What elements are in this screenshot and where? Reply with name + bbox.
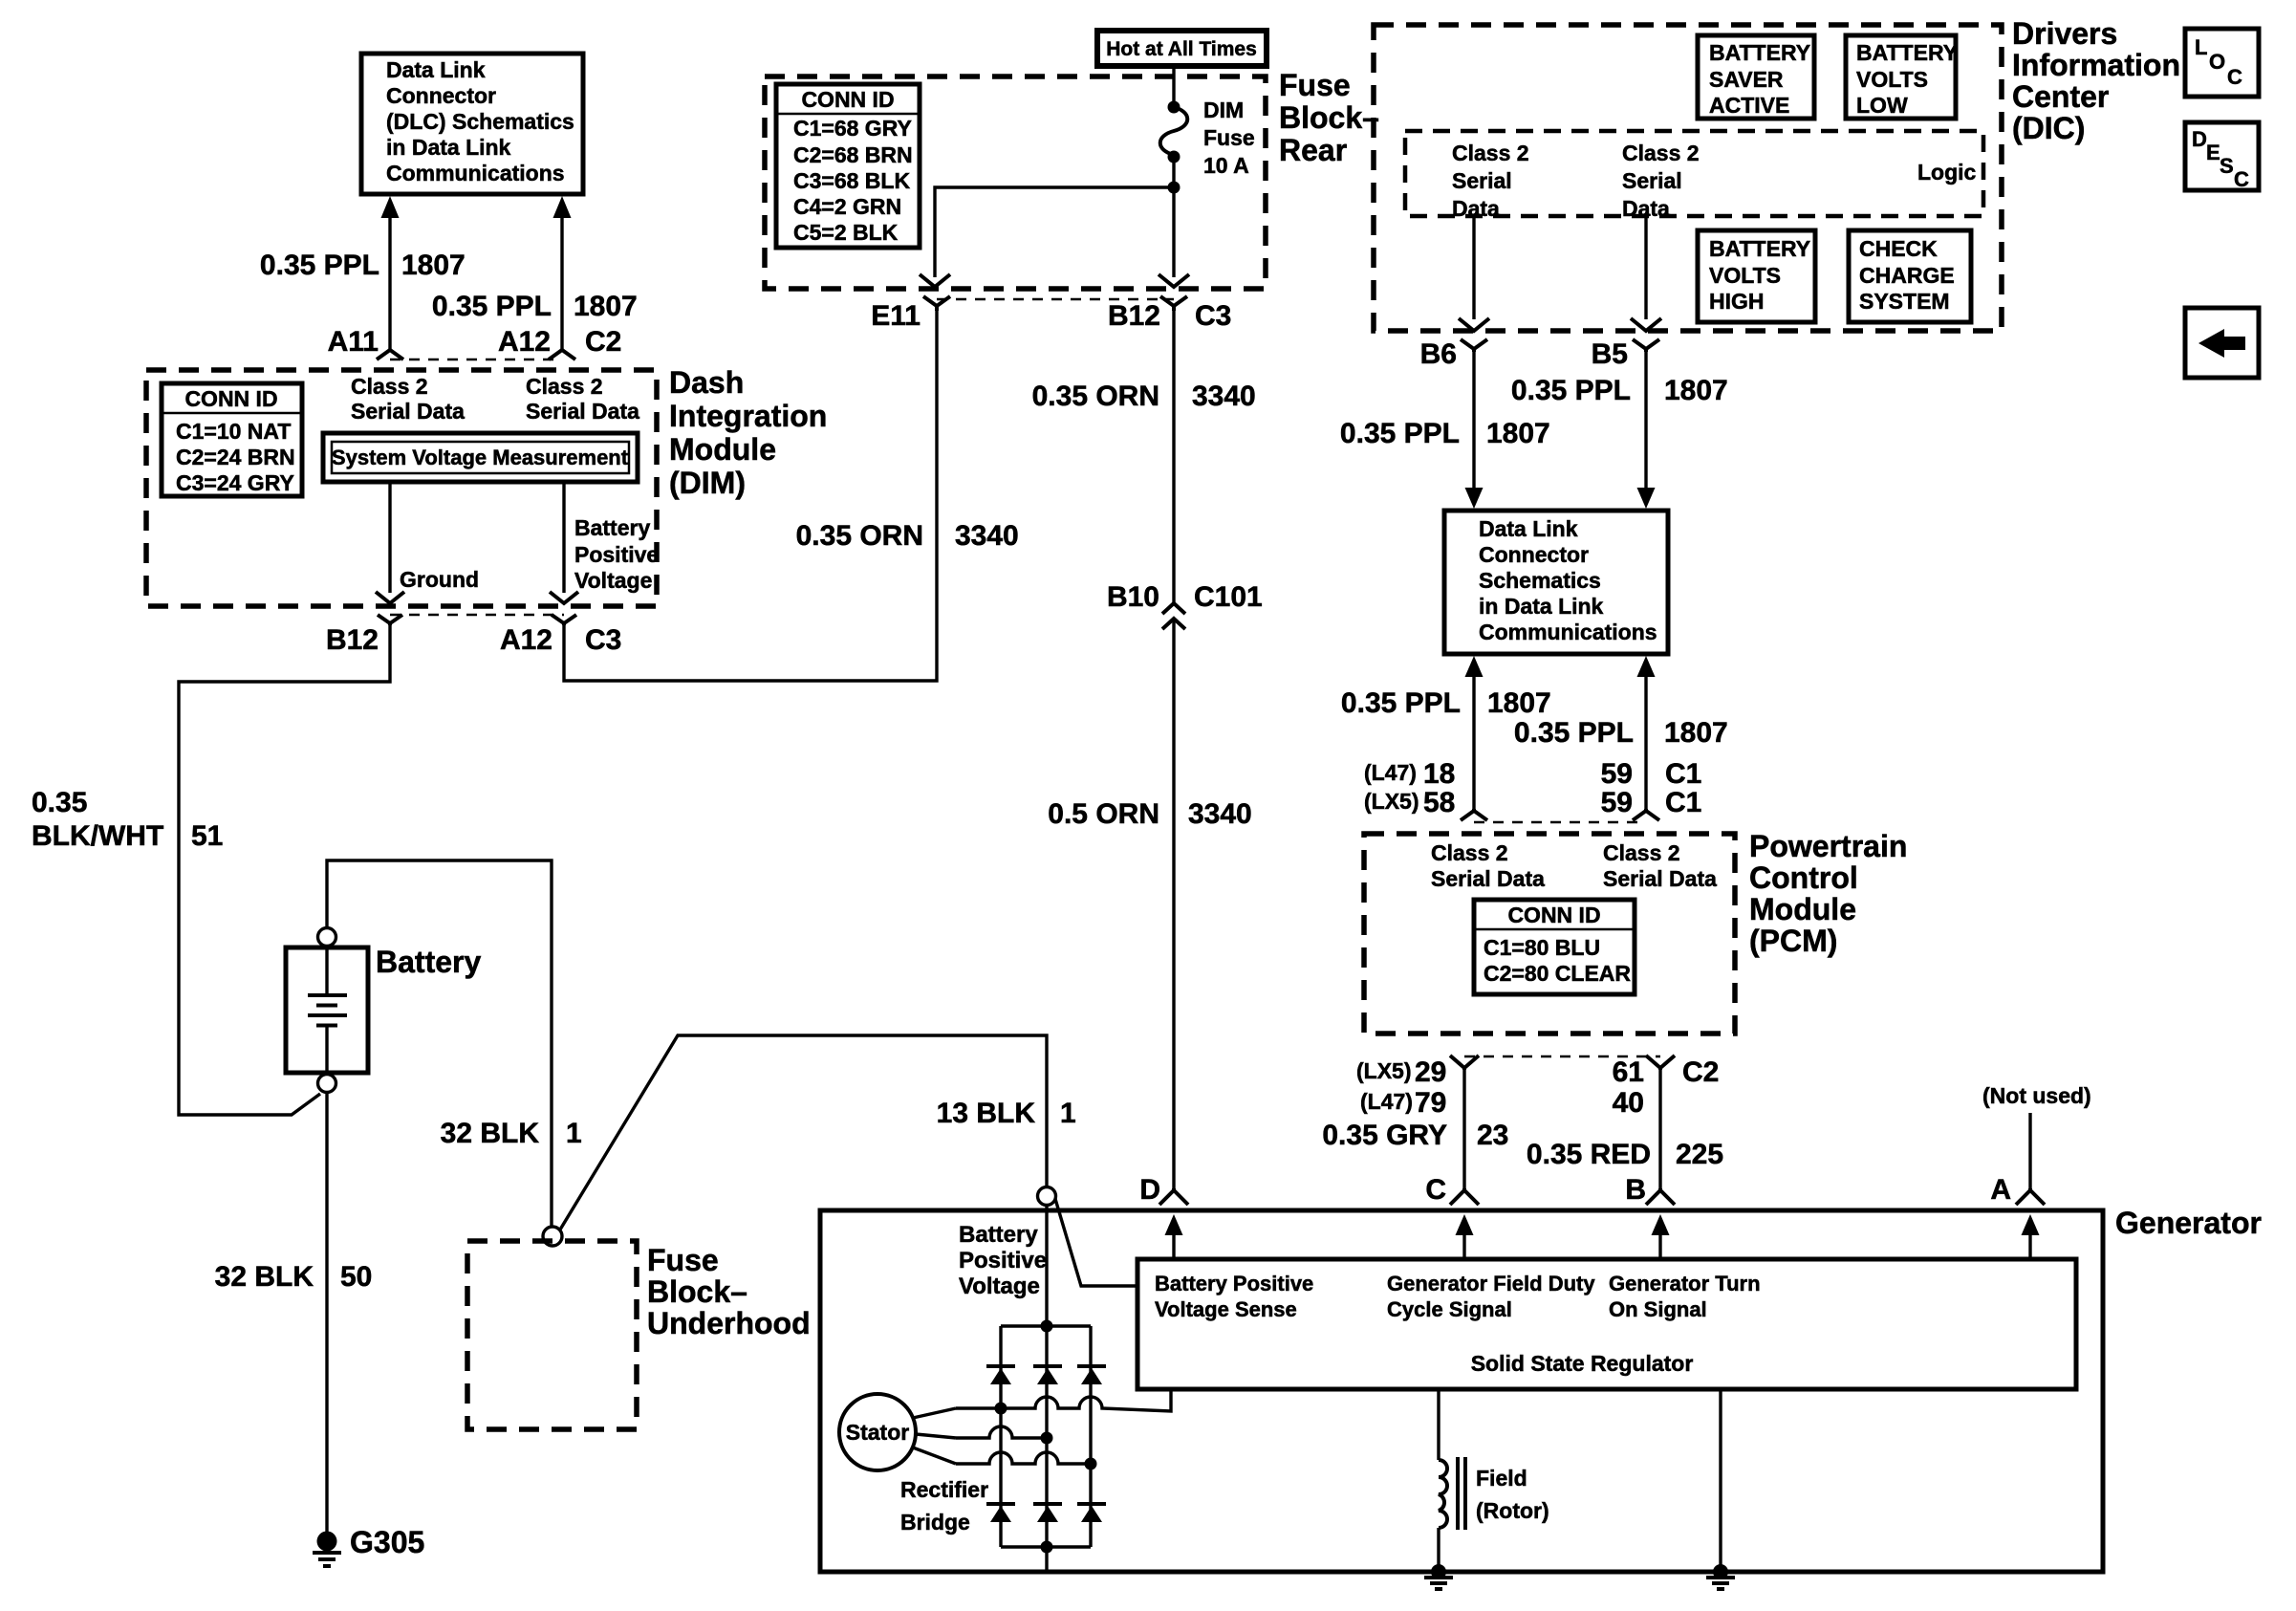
box Hot at All Times (1097, 31, 1267, 66)
svg-text:Rectifier: Rectifier (900, 1477, 988, 1502)
ground symbol (field) (1424, 1578, 1453, 1589)
svg-text:Serial Data: Serial Data (351, 399, 465, 424)
wire bridge center column to ground bus (1045, 1205, 1048, 1572)
svg-text:CONN ID: CONN ID (1507, 903, 1600, 927)
wire 0.35 ORN 3340 (DIM A12/C3 to fuse block E11) (564, 311, 937, 681)
connector fork A12 (prongs down) (549, 350, 575, 359)
svg-text:C2: C2 (585, 326, 621, 358)
svg-text:Rear: Rear (1279, 133, 1347, 167)
svg-text:13 BLK: 13 BLK (937, 1098, 1036, 1129)
svg-text:L: L (2195, 35, 2207, 59)
label 13 BLK 1 (937, 1098, 1076, 1129)
junction dot field ground (1431, 1564, 1446, 1579)
svg-text:Communications: Communications (1479, 620, 1657, 644)
svg-text:Bridge: Bridge (900, 1510, 970, 1535)
wire battery feed into DIM fuse (1172, 65, 1175, 105)
connector fork PCM top right (prongs down) (1633, 809, 1659, 820)
stator phase row 2 (hop over left column) (956, 1426, 1047, 1438)
connector fork B5 (prongs up) (1633, 339, 1659, 352)
battery negative terminal circle (318, 1075, 336, 1093)
svg-text:B6: B6 (1420, 338, 1457, 370)
svg-text:32 BLK: 32 BLK (215, 1261, 314, 1293)
label 0.35 BLK/WHT 51 (32, 787, 223, 852)
svg-text:Generator Field Duty: Generator Field Duty (1387, 1272, 1595, 1295)
svg-text:Underhood: Underhood (647, 1306, 811, 1340)
svg-text:HIGH: HIGH (1709, 289, 1765, 314)
component stator (circle) (839, 1394, 916, 1470)
module box Drivers Information Center (DIC) dashed outline (1374, 25, 2002, 331)
svg-text:Serial Data: Serial Data (1603, 866, 1717, 891)
label Class 2 Serial Data (DIC B6) (1452, 141, 1529, 221)
svg-text:0.35 PPL: 0.35 PPL (1340, 418, 1460, 449)
svg-text:C5=2 BLK: C5=2 BLK (793, 220, 899, 245)
ground G305 symbol (313, 1532, 341, 1567)
svg-text:Block–: Block– (1279, 100, 1379, 135)
indicator box CHECK CHARGE SYSTEM (1849, 230, 1971, 322)
svg-text:0.35: 0.35 (32, 787, 87, 818)
svg-text:Positive: Positive (959, 1248, 1047, 1274)
indicator box BATTERY SAVER ACTIVE (1698, 35, 1814, 119)
svg-text:Data: Data (1452, 196, 1500, 221)
svg-text:C3=68 BLK: C3=68 BLK (793, 168, 910, 193)
svg-text:DIM: DIM (1203, 98, 1244, 122)
connector fork PCM top left (prongs down) (1461, 809, 1487, 820)
wire 0.35 RED (PCM 61/40 to generator B) (1658, 1068, 1661, 1190)
label Generator Field Duty Cycle Signal (1387, 1272, 1595, 1321)
svg-text:1807: 1807 (401, 250, 466, 281)
svg-text:E: E (2206, 141, 2220, 164)
diode upper right (1077, 1366, 1106, 1384)
svg-text:Battery: Battery (959, 1222, 1038, 1248)
arrowhead up generator pin B (inside) (1652, 1214, 1670, 1259)
svg-text:C3=24 GRY: C3=24 GRY (176, 470, 294, 495)
svg-text:59: 59 (1601, 787, 1633, 818)
CONN ID table (PCM) (1474, 900, 1635, 994)
label 0.35 PPL 1807 (B6 wire) (1340, 418, 1550, 449)
svg-text:in Data Link: in Data Link (386, 135, 511, 160)
svg-text:50: 50 (340, 1261, 372, 1293)
svg-text:Serial Data: Serial Data (1431, 866, 1545, 891)
stator lead 1 (913, 1408, 956, 1418)
svg-text:1807: 1807 (1487, 687, 1551, 719)
label DIM Fuse 10 A (1203, 98, 1255, 178)
box System Voltage Measurement (inside DIM) (323, 433, 638, 482)
arrowhead open V at DIM bottom (ground wire) (376, 592, 404, 603)
svg-text:Center: Center (2012, 79, 2109, 114)
svg-text:CHECK: CHECK (1859, 236, 1938, 261)
svg-text:C101: C101 (1194, 581, 1263, 613)
wire generator pin A (not used) (2028, 1113, 2031, 1190)
svg-text:Communications: Communications (386, 161, 565, 185)
rectifier bridge top rail (1001, 1324, 1091, 1327)
label Class 2 Serial Data (DIM right pin) (526, 374, 639, 424)
svg-text:Fuse: Fuse (1279, 68, 1351, 102)
svg-text:Cycle Signal: Cycle Signal (1387, 1297, 1512, 1321)
svg-text:B12: B12 (326, 624, 379, 656)
svg-text:Class 2: Class 2 (1622, 141, 1700, 165)
box Data Link Connector (DLC) Schematics reference (top-left) (361, 54, 583, 194)
svg-text:29: 29 (1415, 1056, 1446, 1088)
label Class 2 Serial Data (DIM left pin) (351, 374, 465, 424)
svg-text:C4=2 GRN: C4=2 GRN (793, 194, 901, 219)
svg-text:(LX5): (LX5) (1364, 789, 1419, 814)
label 0.35 RED 225 (1527, 1139, 1723, 1170)
svg-text:CONN ID: CONN ID (184, 386, 277, 411)
svg-text:Solid State Regulator: Solid State Regulator (1471, 1351, 1694, 1376)
reference box LOC (2185, 29, 2259, 97)
svg-text:1: 1 (566, 1118, 582, 1149)
module box Powertrain Control Module (PCM) dashed outline (1364, 834, 1735, 1034)
label 32 BLK 1 (441, 1118, 582, 1149)
wire 13 BLK 1 (fuse block underhood to generator battery positive) (560, 1035, 1047, 1230)
module label Dash Integration Module (DIM) (669, 365, 827, 500)
component label Rectifier Bridge (900, 1477, 988, 1535)
rectifier bridge bottom rail (1001, 1545, 1091, 1548)
svg-text:System Voltage Measurement: System Voltage Measurement (332, 446, 629, 469)
svg-text:0.35 PPL: 0.35 PPL (1341, 687, 1461, 719)
wire DIM battery positive voltage (SVM to pin A12/C3) (562, 482, 565, 593)
svg-text:(Rotor): (Rotor) (1476, 1498, 1549, 1523)
fuse DIM Fuse 10 A (element symbol) (1160, 107, 1188, 155)
svg-text:C1: C1 (1665, 758, 1701, 790)
diode lower right (1077, 1504, 1106, 1522)
svg-text:Module: Module (1749, 892, 1856, 926)
svg-text:C3: C3 (585, 624, 621, 656)
wire B5 down to DLC reference box (1644, 352, 1647, 490)
svg-text:Data Link: Data Link (386, 57, 486, 82)
arrowhead open V at fuse block bottom (E11) (920, 274, 950, 287)
connector fork generator pin A (prongs down) (2016, 1188, 2045, 1205)
component field rotor coil (1439, 1389, 1465, 1572)
junction dot phase 3 / right column (1085, 1458, 1097, 1470)
junction dot phase 2 / middle column (1041, 1432, 1053, 1445)
svg-text:Field: Field (1476, 1466, 1527, 1491)
svg-text:Class 2: Class 2 (351, 374, 428, 399)
svg-text:C2=24 BRN: C2=24 BRN (176, 445, 295, 469)
wire fuse output to B12/C3 (1172, 187, 1175, 277)
svg-text:Serial Data: Serial Data (526, 399, 639, 424)
stator lead 3 (913, 1448, 956, 1464)
wire 0.35 GRY (PCM 29/79 to generator C) (1462, 1068, 1465, 1190)
svg-text:B5: B5 (1592, 338, 1628, 370)
svg-text:Generator: Generator (2115, 1206, 2262, 1240)
svg-text:0.35 PPL: 0.35 PPL (1514, 717, 1634, 749)
svg-text:225: 225 (1676, 1139, 1723, 1170)
pin label 59 C1 (row1) (1601, 758, 1702, 790)
wire DIC B5 class 2 serial data (logic to pin B5) (1644, 216, 1647, 319)
svg-text:S: S (2220, 154, 2234, 178)
label Class 2 Serial Data (PCM left) (1431, 840, 1545, 891)
diode upper left (986, 1366, 1015, 1384)
rectifier bridge right column (1089, 1326, 1092, 1547)
svg-text:B10: B10 (1107, 581, 1159, 613)
component box Generator (820, 1210, 2103, 1572)
connector fork PCM bottom right (prongs up) (1646, 1056, 1675, 1070)
svg-text:(L47): (L47) (1364, 760, 1417, 785)
label 0.5 ORN 3340 (1048, 798, 1251, 830)
wire 32 BLK 50 (battery negative to G305) (325, 1093, 328, 1534)
svg-text:0.35 PPL: 0.35 PPL (432, 291, 552, 322)
svg-text:32 BLK: 32 BLK (441, 1118, 540, 1149)
svg-text:3340: 3340 (955, 520, 1019, 552)
svg-text:SAVER: SAVER (1709, 67, 1784, 92)
svg-text:Ground: Ground (400, 567, 479, 592)
svg-text:Battery: Battery (376, 945, 481, 979)
svg-text:Class 2: Class 2 (526, 374, 603, 399)
junction circle battery positive (generator top) (1038, 1187, 1056, 1206)
svg-text:C2=80 CLEAR: C2=80 CLEAR (1484, 961, 1631, 986)
label 0.35 ORN 3340 (E11 wire) (796, 520, 1019, 552)
svg-text:Information: Information (2012, 48, 2180, 82)
svg-text:51: 51 (191, 820, 223, 852)
svg-text:1807: 1807 (1664, 375, 1728, 406)
wire DIC B6 class 2 serial data (logic to pin B6) (1472, 216, 1475, 319)
connector fork A11 (prongs down) (377, 350, 403, 359)
svg-text:18: 18 (1423, 758, 1455, 790)
svg-text:BATTERY: BATTERY (1709, 236, 1810, 261)
svg-text:Dash: Dash (669, 365, 744, 400)
label 32 BLK 50 (215, 1261, 373, 1293)
label Battery Positive Voltage (DIM) (574, 515, 659, 593)
svg-text:B: B (1625, 1174, 1646, 1206)
svg-text:Voltage Sense: Voltage Sense (1155, 1297, 1297, 1321)
connector fork generator pin C (prongs down) (1450, 1188, 1479, 1205)
svg-text:C2: C2 (1682, 1056, 1719, 1088)
arrowhead up generator pin C (inside) (1456, 1214, 1474, 1259)
svg-text:BATTERY: BATTERY (1856, 40, 1958, 65)
svg-text:Data Link: Data Link (1479, 516, 1578, 541)
diode lower left (986, 1504, 1015, 1522)
svg-text:A12: A12 (500, 624, 552, 656)
arrowhead solid down (B5 into DLC box) (1637, 488, 1656, 509)
svg-text:Voltage: Voltage (959, 1274, 1040, 1299)
svg-text:0.35 ORN: 0.35 ORN (1032, 381, 1159, 412)
svg-text:Positive: Positive (574, 542, 659, 567)
connector dashed interface line (PCM bottom) (1464, 1056, 1660, 1058)
svg-text:Connector: Connector (386, 83, 496, 108)
component label Field (Rotor) (1476, 1466, 1549, 1523)
svg-text:CONN ID: CONN ID (801, 87, 894, 112)
component battery (286, 947, 368, 1073)
wire 0.35 ORN from fuse B12/C3 down to C101 (1172, 311, 1175, 602)
svg-text:Fuse: Fuse (647, 1243, 719, 1277)
fuse block underhood terminal circle (543, 1227, 562, 1246)
connector fork generator pin D (prongs down) (1159, 1188, 1188, 1205)
svg-text:3340: 3340 (1188, 798, 1252, 830)
connector fork A12/C3 (prongs up) (552, 615, 576, 625)
arrowhead open V at DIC bottom (B6) (1459, 318, 1489, 331)
connector dashed interface line (PCM top) (1474, 821, 1646, 824)
svg-text:C: C (1425, 1174, 1446, 1206)
reference box DESC (2185, 122, 2259, 191)
svg-text:23: 23 (1477, 1120, 1508, 1151)
arrowhead open V at DIM bottom (battery positive wire) (550, 592, 578, 603)
wire battery positive to fuse block underhood (327, 860, 552, 1227)
module box Dash Integration Module (DIM) dashed outline (146, 370, 657, 606)
connector dashed interface line (DIM top) (390, 359, 562, 361)
label Class 2 Serial Data (DIC B5) (1622, 141, 1700, 221)
wire DIM A12/C2 to DLC (Class 2 serial data) (553, 196, 572, 351)
arrowhead open V at DIC bottom (B5) (1631, 318, 1661, 331)
connector dashed interface line (DIM bottom) (390, 614, 564, 617)
svg-text:Control: Control (1749, 860, 1858, 895)
svg-text:10 A: 10 A (1203, 153, 1249, 178)
connector fork B6 (prongs up) (1461, 339, 1487, 352)
svg-text:B12: B12 (1108, 300, 1160, 332)
wire battery positive sense (junction to regulator) (1055, 1199, 1137, 1286)
svg-text:A12: A12 (498, 326, 551, 358)
stator lead 2 (916, 1434, 956, 1438)
svg-text:58: 58 (1423, 787, 1455, 818)
svg-text:(DIM): (DIM) (669, 466, 746, 500)
label 0.35 GRY 23 (1322, 1120, 1508, 1151)
label 0.35 PPL 1807 (B5 wire) (1511, 375, 1728, 406)
svg-text:VOLTS: VOLTS (1856, 67, 1928, 92)
module label Drivers Information Center (DIC) (2012, 16, 2180, 145)
arrowhead up generator pin A (inside) (2022, 1214, 2040, 1259)
indicator box BATTERY VOLTS HIGH (1698, 230, 1815, 322)
pin label 59 C1 (row2) (1601, 787, 1702, 818)
svg-text:0.35 GRY: 0.35 GRY (1322, 1120, 1447, 1151)
arrowhead up generator pin D (inside) (1165, 1214, 1183, 1259)
wire DIM A11 to DLC (Class 2 serial data) (381, 196, 400, 351)
svg-text:E11: E11 (871, 300, 921, 332)
svg-text:CHARGE: CHARGE (1859, 263, 1955, 288)
svg-text:Class 2: Class 2 (1603, 840, 1680, 865)
junction dot regulator ground (1713, 1564, 1728, 1579)
indicator box BATTERY VOLTS LOW (1846, 35, 1958, 119)
junction dot bridge top (1041, 1320, 1053, 1333)
wire fuse output to junction (1172, 157, 1175, 187)
svg-text:61: 61 (1613, 1056, 1644, 1088)
label Class 2 Serial Data (PCM right) (1603, 840, 1717, 891)
wire DIM ground (SVM to pin B12) (388, 482, 391, 593)
svg-text:Serial: Serial (1452, 168, 1512, 193)
module box Fuse Block - Rear dashed outline (765, 76, 1266, 289)
svg-text:(L47): (L47) (1360, 1089, 1413, 1114)
wire PCM 18/58 to DLC reference box (left) (1465, 656, 1484, 811)
stator phase row 3 (hops to right column) (956, 1452, 1091, 1464)
svg-text:0.35 PPL: 0.35 PPL (1511, 375, 1631, 406)
svg-text:O: O (2209, 50, 2225, 74)
svg-text:Schematics: Schematics (1479, 568, 1601, 593)
svg-text:VOLTS: VOLTS (1709, 263, 1781, 288)
svg-text:Class 2: Class 2 (1431, 840, 1508, 865)
diode upper middle (1033, 1366, 1062, 1384)
svg-text:1: 1 (1060, 1098, 1076, 1129)
svg-text:1807: 1807 (1486, 418, 1550, 449)
module label Fuse Block - Underhood (647, 1243, 811, 1340)
svg-text:Drivers: Drivers (2012, 16, 2117, 51)
pin label 61 C2 (1613, 1056, 1720, 1088)
pin label (L47) 18 (1364, 758, 1455, 790)
svg-text:C: C (2234, 167, 2249, 191)
rectifier bridge left column (999, 1326, 1002, 1547)
junction dot (fuse top) (1168, 101, 1180, 114)
svg-text:Block–: Block– (647, 1274, 747, 1309)
svg-text:C: C (2227, 65, 2242, 89)
svg-text:Integration: Integration (669, 399, 827, 433)
label 0.35 PPL 1807 (A12 wire) (432, 291, 638, 322)
svg-text:A: A (1990, 1174, 2011, 1206)
label 0.35 ORN 3340 (upper, B12/C3 wire) (1032, 381, 1256, 412)
svg-text:3340: 3340 (1192, 381, 1256, 412)
svg-text:59: 59 (1601, 758, 1633, 790)
svg-text:C3: C3 (1195, 300, 1231, 332)
label 0.35 PPL 1807 (PCM 59 wire) (1514, 717, 1728, 749)
svg-text:Class 2: Class 2 (1452, 141, 1529, 165)
wire B6 down to DLC reference box (1472, 352, 1475, 490)
stator phase row 1 (with hops, to regulator) (956, 1389, 1171, 1411)
svg-text:(PCM): (PCM) (1749, 924, 1837, 958)
battery positive terminal circle (318, 928, 336, 947)
svg-text:(DLC) Schematics: (DLC) Schematics (386, 109, 574, 134)
svg-text:1807: 1807 (1664, 717, 1728, 749)
svg-text:Battery: Battery (574, 515, 650, 540)
svg-text:(LX5): (LX5) (1356, 1058, 1412, 1083)
CONN ID table (Fuse Block Rear) (776, 84, 920, 248)
junction dot bridge bottom (1041, 1541, 1053, 1554)
svg-text:0.35 PPL: 0.35 PPL (260, 250, 379, 281)
CONN ID table (DIM) (162, 383, 302, 496)
connector fork B12/C3 (prongs up) (1160, 296, 1187, 311)
svg-text:C1: C1 (1665, 787, 1701, 818)
ground symbol (regulator) (1706, 1578, 1735, 1589)
svg-text:(DIC): (DIC) (2012, 111, 2085, 145)
svg-text:0.35 ORN: 0.35 ORN (796, 520, 923, 552)
svg-text:1807: 1807 (574, 291, 638, 322)
svg-text:C1=10 NAT: C1=10 NAT (176, 419, 291, 444)
svg-text:SYSTEM: SYSTEM (1859, 289, 1950, 314)
arrowhead open V at fuse block bottom (B12/C3) (1159, 274, 1189, 287)
wire fuse output branch to E11 (935, 187, 1174, 277)
svg-text:A11: A11 (328, 326, 379, 358)
svg-text:Module: Module (669, 432, 776, 467)
component box Solid State Regulator (1137, 1259, 2076, 1389)
box Data Link Connector Schematics reference (middle-right) (1444, 511, 1668, 654)
connector dashed interface line (fuse block bottom) (937, 298, 1174, 301)
junction dot (fuse bottom) (1168, 151, 1180, 163)
svg-text:Battery Positive: Battery Positive (1155, 1272, 1313, 1295)
svg-text:C2=68 BRN: C2=68 BRN (793, 142, 913, 167)
pin label (LX5) 58 (1364, 787, 1455, 818)
svg-text:G305: G305 (350, 1525, 424, 1559)
svg-text:LOW: LOW (1856, 93, 1908, 118)
connector fork PCM bottom left (prongs up) (1450, 1056, 1479, 1070)
connector fork E11 (prongs up) (923, 296, 950, 311)
svg-text:Logic: Logic (1917, 160, 1977, 185)
connector fork generator pin B (prongs down) (1646, 1188, 1675, 1205)
arrowhead solid down (B6 into DLC box) (1465, 488, 1484, 509)
label 0.35 PPL 1807 (A11 wire) (260, 250, 466, 281)
connector C101 pass-through symbol (double chevron) (1162, 603, 1185, 629)
svg-text:Generator Turn: Generator Turn (1609, 1272, 1761, 1295)
logic block dashed box (inside DIC) (1405, 131, 1983, 216)
wire 0.5 ORN from C101 down to generator D (1172, 619, 1175, 1190)
svg-text:C1=80 BLU: C1=80 BLU (1484, 935, 1600, 960)
pin label (L47) 79 (1360, 1087, 1446, 1119)
svg-text:Fuse: Fuse (1203, 125, 1255, 150)
svg-text:Serial: Serial (1622, 168, 1682, 193)
svg-text:ACTIVE: ACTIVE (1709, 93, 1789, 118)
label Battery Positive Voltage Sense (1155, 1272, 1313, 1321)
svg-text:40: 40 (1613, 1087, 1644, 1119)
diode lower middle (1033, 1504, 1062, 1522)
pin label (LX5) 29 (1356, 1056, 1446, 1088)
label 0.35 PPL 1807 (PCM 18 wire) (1341, 687, 1551, 719)
junction dot (fuse output node) (1168, 182, 1180, 194)
svg-text:BATTERY: BATTERY (1709, 40, 1810, 65)
